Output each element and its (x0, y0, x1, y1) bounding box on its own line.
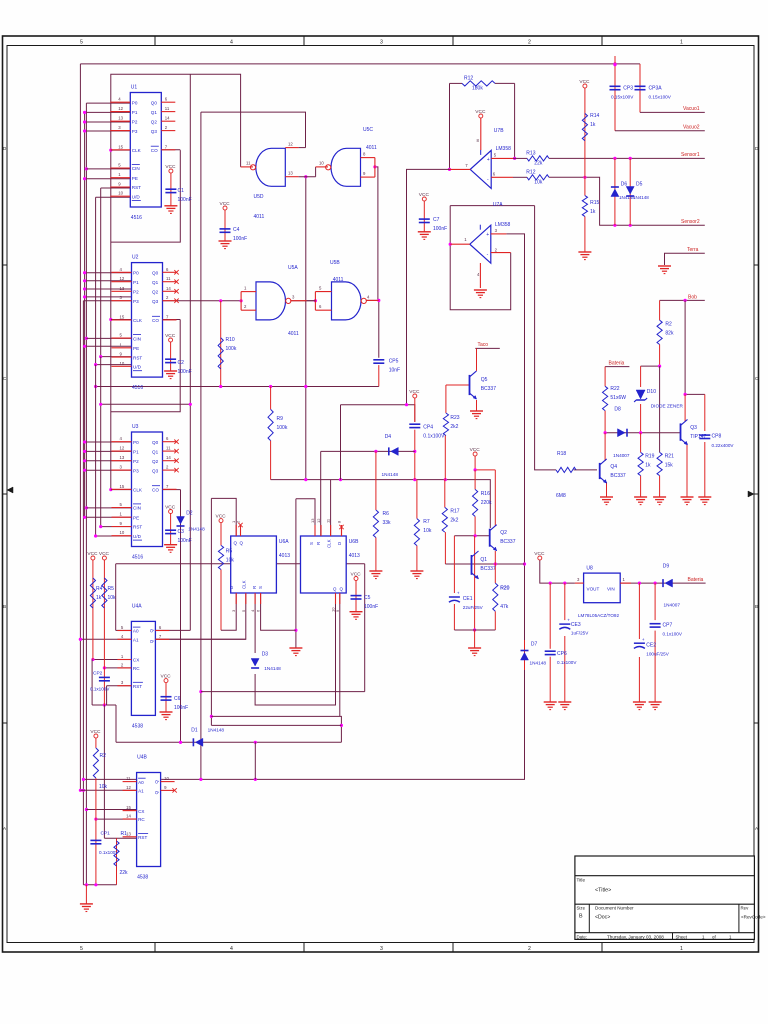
net label Sensor2 (681, 219, 700, 225)
svg-text:12: 12 (288, 142, 293, 147)
transistor Q2 BC337 (490, 525, 516, 551)
svg-text:14: 14 (126, 814, 131, 819)
svg-text:10: 10 (120, 530, 125, 535)
svg-text:Terra: Terra (687, 247, 699, 253)
wire U1 PE row (83, 177, 131, 180)
capacitor CE2 100uF/25V (634, 637, 645, 649)
wire U6A pin3 down (221, 593, 236, 630)
ground C6 (160, 712, 173, 720)
VCC Q2 (470, 447, 481, 456)
ground C4 (219, 241, 232, 249)
svg-text:R17: R17 (450, 509, 459, 515)
wire R12 row left (450, 82, 463, 84)
wire R12 row right (495, 82, 515, 84)
wire U3 CO stub run (161, 489, 181, 491)
wire C2 column (170, 342, 172, 371)
U6A inside labels (229, 541, 263, 590)
wire U1 P2 row (83, 120, 131, 123)
svg-text:Q: Q (149, 639, 154, 643)
svg-text:100uF/25V: 100uF/25V (646, 652, 669, 657)
wire R6 gnd lead (375, 538, 377, 572)
svg-text:A1: A1 (133, 638, 139, 643)
svg-text:Q3: Q3 (690, 425, 697, 431)
svg-text:0.1x100V: 0.1x100V (90, 687, 110, 692)
svg-text:4011: 4011 (288, 331, 299, 337)
wire R6 column (375, 451, 377, 510)
R18 value (556, 493, 566, 499)
svg-text:A0: A0 (133, 629, 139, 634)
svg-text:10k: 10k (108, 595, 117, 601)
svg-text:Q: Q (234, 541, 238, 546)
svg-text:CO: CO (152, 318, 159, 323)
transistor Q4 BC337 (600, 459, 626, 483)
wire U2 PE row (83, 345, 132, 348)
VCC pair lower labels (0, 0, 1, 1)
svg-text:P3: P3 (133, 468, 139, 473)
ground CP6 (544, 702, 557, 710)
wire R20 bottom (494, 611, 496, 630)
svg-text:RST: RST (138, 835, 147, 840)
diode D4 1N4148 (389, 447, 399, 455)
svg-text:R21: R21 (665, 454, 674, 460)
net label Terra (687, 247, 699, 253)
wire CP1 column (95, 819, 97, 885)
VCC C1 (165, 164, 176, 173)
R1 value (120, 870, 129, 876)
svg-text:VOUT: VOUT (587, 587, 600, 592)
wire x295 column (294, 499, 297, 648)
VCC C3 (165, 504, 176, 513)
wire staircase 692 (201, 691, 365, 693)
svg-text:12: 12 (120, 446, 125, 451)
svg-text:U5C: U5C (363, 127, 373, 133)
svg-text:Title: Title (577, 878, 586, 883)
IC U6A 4013 body (231, 536, 277, 593)
resistor R lower 10k (93, 748, 106, 778)
resistor R22 51x6W (603, 386, 627, 411)
net label VCCVCC texts (0, 0, 1, 1)
svg-text:P2: P2 (133, 459, 139, 464)
svg-text:LM78L05ACZ/TO92: LM78L05ACZ/TO92 (578, 613, 619, 618)
wire x116 D1 riser (115, 705, 117, 742)
wire Q5 collector (476, 348, 478, 371)
svg-text:10nF: 10nF (389, 368, 400, 374)
svg-text:CLK: CLK (132, 148, 142, 153)
svg-text:1uF/25V: 1uF/25V (571, 631, 589, 636)
svg-text:R10: R10 (226, 337, 235, 343)
svg-text:CP3A: CP3A (649, 86, 663, 92)
resistor R12 180k (462, 76, 495, 92)
ground C7 (418, 232, 431, 240)
svg-text:R: R (252, 586, 257, 589)
wire U1 CO stub run (162, 149, 181, 151)
wire U5A out link (307, 300, 316, 302)
svg-text:Q3: Q3 (151, 129, 158, 134)
ground Q1 CE1 (468, 648, 481, 656)
VCC C4 (220, 201, 231, 210)
VCC R3 (87, 551, 98, 560)
svg-text:Q4: Q4 (610, 464, 617, 470)
svg-text:R13: R13 (526, 151, 535, 157)
svg-text:CE2: CE2 (646, 643, 656, 649)
resistor R13 22k (526, 151, 549, 167)
wire U1 P1 row (83, 111, 131, 114)
svg-text:R9: R9 (277, 416, 284, 422)
wire RST chain 1 (100, 188, 102, 357)
wire bus x83 (82, 301, 85, 885)
wire U2 RST row (99, 355, 132, 358)
wire U6A pin5 down (155, 593, 245, 639)
wire U5C out drop (373, 165, 378, 300)
wire bob to Q3 (684, 300, 686, 394)
svg-text:10k: 10k (99, 784, 108, 790)
VCC C5 (351, 571, 362, 580)
svg-text:PE: PE (133, 515, 139, 520)
svg-text:Q2: Q2 (500, 530, 507, 536)
ground R6 (369, 571, 382, 579)
wire CE3 column (564, 583, 566, 620)
svg-text:R6: R6 (383, 511, 390, 517)
wire U5A out to U5B in (288, 299, 317, 302)
wire C4 column (224, 210, 226, 241)
diode D2 1N4148 (177, 517, 185, 527)
D7 labels (530, 642, 547, 666)
svg-text:4516: 4516 (132, 385, 143, 391)
svg-text:VCC: VCC (90, 729, 101, 735)
svg-text:+: + (457, 591, 460, 596)
wire R1 column (116, 838, 118, 885)
svg-text:LM358: LM358 (495, 222, 511, 228)
wire U7B out to CP4 net (407, 169, 450, 404)
svg-text:R1: R1 (121, 831, 128, 837)
wire VCC U8 feed (540, 560, 575, 585)
svg-text:1N4148: 1N4148 (530, 660, 547, 665)
wire x211 column (210, 498, 213, 725)
svg-text:Q3: Q3 (152, 299, 159, 304)
U6A pin2 noconnect (238, 523, 242, 527)
R lower value (99, 784, 108, 790)
svg-text:51x6W: 51x6W (610, 395, 626, 401)
svg-text:U1: U1 (131, 85, 138, 91)
wire R17 bottom (444, 532, 446, 564)
svg-text:22uF/25V: 22uF/25V (463, 605, 484, 610)
svg-text:1N4148: 1N4148 (208, 727, 225, 732)
wire CE2 column (638, 583, 640, 639)
svg-text:VCC: VCC (220, 201, 231, 207)
svg-text:Q1: Q1 (152, 449, 159, 454)
ground CP8 (698, 497, 711, 505)
wire U1 RST row (101, 187, 131, 189)
svg-text:C6: C6 (174, 696, 181, 702)
wire U7A loop top (450, 205, 534, 207)
VCC lower left (90, 729, 101, 738)
svg-text:LM358: LM358 (496, 146, 512, 152)
resistor R4 10k (102, 578, 116, 608)
net label Taco (478, 342, 489, 348)
wire CE1 bottom (453, 604, 455, 630)
svg-text:U5A: U5A (288, 265, 298, 271)
svg-text:D6: D6 (621, 181, 628, 187)
svg-text:Q1: Q1 (151, 110, 158, 115)
wire d10 top link (641, 365, 662, 368)
svg-text:RST: RST (132, 185, 141, 190)
svg-text:D4: D4 (385, 434, 392, 440)
svg-text:Sensor1: Sensor1 (681, 152, 700, 158)
U5B pin stubs (315, 286, 378, 311)
wire U4B RST row (104, 837, 136, 839)
wire C7 column (423, 201, 425, 232)
svg-text:R12: R12 (526, 170, 535, 176)
wire R9 column (270, 387, 272, 410)
wire VCC R lower left (95, 738, 97, 748)
svg-text:+: + (486, 232, 489, 238)
svg-text:1N4148: 1N4148 (633, 195, 649, 200)
wire U4A Q7 row (155, 638, 245, 640)
svg-text:4013: 4013 (349, 553, 360, 559)
svg-text:4011: 4011 (333, 277, 344, 283)
svg-text:100nF: 100nF (233, 236, 247, 242)
gate U5B (330, 260, 366, 320)
D10 labels (647, 389, 684, 408)
wire R21 gnd lead (659, 476, 661, 497)
wire R12 right leg (513, 83, 516, 160)
svg-text:Q: Q (240, 541, 244, 546)
IC U2 pins and labels (112, 255, 179, 392)
svg-text:BC337: BC337 (610, 473, 626, 479)
IC U1 4516 body (130, 93, 161, 208)
wire CE3 gnd lead (564, 636, 566, 702)
capacitor C6 100nF (161, 696, 189, 711)
CP3 labels (611, 86, 634, 100)
wire cp4 rail drop (340, 405, 342, 480)
wire U4A A1 row (79, 638, 132, 641)
capacitor C2 100nF (165, 359, 192, 375)
ground CE2 (633, 702, 646, 710)
svg-text:VCC: VCC (165, 333, 176, 339)
wire R12 loop (448, 83, 451, 171)
svg-text:3: 3 (380, 946, 383, 952)
svg-text:4013: 4013 (279, 553, 290, 559)
svg-text:VCC: VCC (165, 504, 176, 510)
svg-text:0.15x100V: 0.15x100V (649, 95, 672, 100)
svg-text:Thursday, January 03, 2008: Thursday, January 03, 2008 (607, 934, 664, 939)
svg-text:C4: C4 (233, 227, 240, 233)
svg-text:0.1x100V: 0.1x100V (557, 660, 577, 665)
wire sensor2 line b (549, 176, 705, 227)
wire Q4 emitter (606, 482, 608, 497)
svg-text:12: 12 (118, 106, 123, 111)
svg-text:100nF: 100nF (178, 369, 192, 375)
resistor R18 6M8 (556, 451, 576, 473)
svg-text:U3: U3 (132, 424, 139, 430)
svg-text:<RevCode>: <RevCode> (741, 915, 766, 920)
ground Q4 (600, 497, 613, 505)
U6B inside labels (309, 539, 344, 591)
svg-text:R20: R20 (500, 586, 509, 592)
net label Bateria right (609, 360, 625, 366)
svg-text:Q: Q (154, 790, 159, 794)
U8 labels (577, 566, 626, 619)
wire y630 row (454, 629, 495, 631)
CP8 labels (712, 434, 735, 449)
svg-text:Vacuo1: Vacuo1 (683, 106, 700, 112)
svg-text:Q3: Q3 (152, 468, 159, 473)
title block (575, 856, 766, 939)
svg-text:A1: A1 (138, 789, 144, 794)
svg-text:100nF: 100nF (178, 197, 192, 203)
wire VCC Q2 feed (474, 456, 496, 472)
svg-text:P2: P2 (133, 290, 139, 295)
svg-text:Rev: Rev (741, 906, 750, 911)
wire staircase 716 (211, 716, 343, 742)
wire CP6 column (549, 583, 551, 649)
wire Q3 collector link (684, 393, 705, 396)
wire R14 column (584, 88, 586, 196)
wire taco line (475, 347, 500, 349)
IC U6B pins and labels (310, 518, 360, 612)
svg-text:R2: R2 (665, 322, 672, 328)
net label Bob (688, 294, 697, 300)
svg-text:13: 13 (120, 455, 125, 460)
svg-text:0.1x100V: 0.1x100V (663, 632, 683, 637)
svg-text:1k: 1k (645, 463, 651, 469)
wire U3 P3 row (83, 469, 132, 472)
D4 labels (382, 434, 399, 477)
wire VCC CP4 lead (414, 398, 416, 422)
diode D5 1N4148 (626, 187, 634, 197)
svg-text:1k: 1k (96, 595, 102, 601)
wire Q3 emitter (686, 443, 688, 497)
IC U3 4516 body (132, 432, 163, 547)
svg-text:CP8: CP8 (712, 434, 722, 440)
wire x255 link (254, 742, 256, 779)
capacitor CP3 0.15x100V (610, 86, 621, 89)
svg-text:22k: 22k (534, 161, 543, 167)
svg-text:RC: RC (138, 817, 145, 822)
wire U4B A1 row (80, 789, 136, 791)
capacitor CP6 0.1x100V (545, 651, 556, 654)
svg-text:<Title>: <Title> (595, 888, 611, 894)
svg-text:R14: R14 (590, 113, 599, 119)
CP2 labels (90, 671, 110, 692)
wire U7A pin3 long vertical (161, 234, 526, 781)
svg-text:P1: P1 (132, 110, 138, 115)
svg-text:Date:: Date: (577, 934, 588, 939)
svg-text:R4: R4 (96, 586, 103, 592)
capacitor CP5 10nF (373, 359, 400, 374)
ground R19 (634, 497, 647, 505)
svg-text:10k: 10k (423, 528, 432, 534)
net label Vacuo1 (683, 106, 700, 112)
svg-text:Q5: Q5 (481, 377, 488, 383)
resistor R7 10k (414, 519, 432, 546)
svg-text:C5: C5 (364, 595, 371, 601)
svg-text:U/D: U/D (133, 365, 142, 370)
svg-text:R: R (316, 542, 321, 545)
wire CP3 column (613, 56, 616, 131)
svg-text:Q1: Q1 (152, 280, 159, 285)
capacitor C5 100nF (351, 595, 379, 610)
wire CP7 gnd lead (654, 631, 656, 702)
svg-text:RST: RST (133, 684, 142, 689)
svg-text:220k: 220k (481, 500, 492, 506)
wire D3 column (254, 593, 256, 653)
diode D7 1N4148 (521, 651, 529, 661)
wire U3 P0 row (83, 440, 132, 443)
wire U2 CIN row (86, 337, 132, 339)
wire R5 bottom (220, 570, 222, 631)
svg-text:12: 12 (126, 785, 131, 790)
svg-text:0.1x100V: 0.1x100V (99, 850, 119, 855)
svg-text:82k: 82k (665, 331, 674, 337)
svg-text:14: 14 (166, 455, 171, 460)
svg-text:R16: R16 (481, 491, 490, 497)
U5C pin stubs (316, 152, 375, 178)
wire U4A Q6 riser (189, 74, 191, 630)
svg-text:12: 12 (316, 518, 321, 523)
svg-text:U5B: U5B (330, 260, 340, 266)
wire CLK cascade 1 (111, 150, 181, 242)
svg-text:15: 15 (120, 314, 125, 319)
wire U7A loop left (449, 206, 511, 310)
svg-text:4011: 4011 (366, 145, 377, 151)
svg-text:CP1: CP1 (101, 831, 111, 837)
U8 pin stubs (575, 582, 631, 584)
wire bateria2 line (605, 366, 629, 368)
wire Q2 base row (454, 534, 489, 537)
svg-text:CP4: CP4 (423, 425, 433, 431)
IC U4B 4538 body (137, 773, 161, 867)
wire U6B top feed (296, 499, 315, 536)
net label Vacuo2 (683, 125, 700, 131)
VCC C7 (419, 192, 430, 201)
VCC R14 top (579, 79, 590, 88)
wire CE2 gnd lead (638, 657, 640, 702)
wire U8 out row (620, 582, 657, 585)
wire vacuo2 line (615, 130, 705, 132)
ground R15 (578, 252, 591, 260)
IC U6B 4013 body (301, 536, 347, 593)
wire x364 drop (364, 564, 366, 692)
ground C3 (164, 545, 177, 553)
U5A pin stubs (241, 286, 307, 311)
VCC R4 (99, 551, 110, 560)
wire VCC R lower left2 (95, 778, 97, 819)
svg-text:14: 14 (166, 286, 171, 291)
svg-text:VCC: VCC (409, 389, 420, 395)
wire U6B pin bottom1 (339, 593, 341, 716)
svg-text:6M8: 6M8 (556, 493, 566, 499)
D9 labels (663, 563, 681, 607)
svg-text:R23: R23 (450, 415, 459, 421)
wire R9 to bus (270, 441, 272, 480)
ground U7A pin4 (474, 290, 487, 298)
svg-text:Sensor2: Sensor2 (681, 219, 700, 225)
svg-text:1k: 1k (590, 209, 596, 215)
svg-text:C1: C1 (178, 188, 185, 194)
resistor R16 220k (473, 489, 493, 516)
wire y705 left v (91, 660, 93, 706)
capacitor C3 100nF (165, 529, 192, 544)
svg-text:Q2: Q2 (151, 119, 158, 124)
svg-text:CP3: CP3 (623, 86, 633, 92)
wire D3 bottom (255, 593, 335, 705)
svg-text:U6B: U6B (349, 539, 359, 545)
wire C6 column (165, 683, 167, 712)
svg-text:Q2: Q2 (152, 459, 159, 464)
svg-text:R18: R18 (557, 451, 566, 457)
wire U2 UD row (94, 363, 132, 366)
